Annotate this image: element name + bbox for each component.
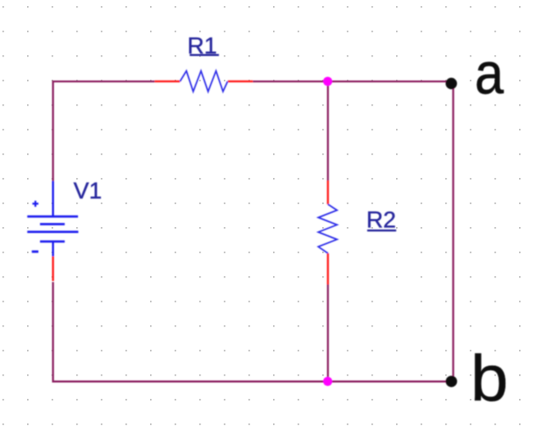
svg-text:V1: V1 <box>74 177 102 203</box>
battery V1 plate 3 long <box>27 231 78 233</box>
svg-text:a: a <box>475 41 504 106</box>
resistor R2 pin top <box>327 181 329 205</box>
battery V1 plate 1 long <box>27 215 78 217</box>
wire R2 branch bottom (R2 pin to bottom wire) <box>327 285 329 382</box>
wire R2 branch top (node to R2 pin) <box>327 81 329 180</box>
resistor R2 label underline <box>367 230 396 232</box>
resistor R2 pin bottom <box>327 253 329 284</box>
wire bottom from V1 leg to corner b <box>53 282 453 382</box>
svg-text:R2: R2 <box>366 207 396 233</box>
terminal dot a <box>446 78 457 89</box>
svg-text:b: b <box>471 343 509 415</box>
battery V1 minus sign <box>32 250 39 252</box>
battery V1 bottom lead <box>52 243 54 257</box>
resistor R2 body <box>318 204 337 253</box>
wire top-left from R1 to corner and down to V1 <box>53 81 155 181</box>
resistor R1 pin right <box>228 80 253 82</box>
resistor R1 label underline <box>190 54 219 56</box>
battery V1 pin bottom <box>52 256 54 281</box>
junction node bottom (magenta) <box>323 377 332 386</box>
battery V1 top lead <box>52 181 54 216</box>
resistor R1 pin left <box>155 80 180 82</box>
junction node top (magenta) <box>323 77 332 86</box>
wire top-right from R1 through node to corner a and down right side <box>253 81 453 381</box>
terminal dot b <box>446 376 457 387</box>
battery V1 plate 4 short <box>40 240 65 242</box>
battery V1 plate 2 short <box>40 223 65 225</box>
resistor R1 body <box>180 71 228 92</box>
battery V1 plus sign <box>32 201 38 207</box>
